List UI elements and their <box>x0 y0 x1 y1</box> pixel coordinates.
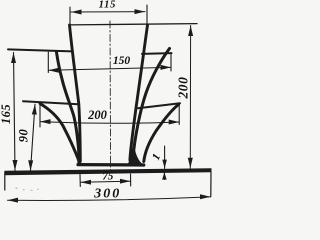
neck right wall <box>130 25 148 160</box>
dim 200 right line <box>189 26 191 169</box>
wire: stage1 right lip <box>138 103 180 108</box>
neck left wall <box>70 25 81 161</box>
dim 115 ext left <box>69 7 71 25</box>
dim 300 right arrow <box>200 194 211 199</box>
neck top edge + extension to right 200 dim <box>70 24 198 25</box>
stage1 right bell curve <box>144 105 179 162</box>
centerline <box>109 21 112 170</box>
dim 90 line <box>31 104 36 170</box>
dim 150 ext right <box>170 54 172 72</box>
vessel bottom right corner fill <box>128 149 143 165</box>
stage2 left bell curve <box>57 52 80 161</box>
base plate (blank) <box>5 168 212 175</box>
svg-text:165: 165 <box>0 104 13 124</box>
svg-text:75: 75 <box>102 171 114 183</box>
stage2 right bell curve <box>133 49 170 159</box>
dim 300 line <box>8 197 211 201</box>
dim 90 down arrow <box>28 160 33 170</box>
faint scan speckles on plate <box>16 188 39 192</box>
dim 115 line <box>71 11 145 13</box>
svg-text:1: 1 <box>150 152 163 162</box>
plate right edge ext <box>210 172 212 197</box>
wire: stage2 left lip (top flange, also ext line for 165) <box>8 49 72 51</box>
plate left edge ext <box>4 172 6 190</box>
svg-text:115: 115 <box>99 0 117 10</box>
dim 200 mid line <box>40 122 179 124</box>
dim 1 down arrow <box>162 160 167 169</box>
dim 1 leader upper segment <box>164 146 166 168</box>
svg-text:200: 200 <box>87 108 108 122</box>
dim 90 up arrow <box>32 104 37 114</box>
dim 165 line <box>14 53 16 171</box>
dim 150 line <box>48 67 171 70</box>
dim 200 mid right arrow <box>169 120 180 125</box>
wire: stage2 right lip <box>142 52 172 55</box>
dim 165 up arrow <box>11 53 16 64</box>
stage1 left bell curve <box>40 104 79 162</box>
vessel flat bottom <box>78 163 144 167</box>
dim 200 right down arrow <box>188 158 193 169</box>
dim 1 up arrow <box>162 172 167 179</box>
dim 75 line <box>81 181 131 182</box>
dim 75 ext right <box>130 174 132 186</box>
dim 150 ext left <box>47 52 49 73</box>
dim 75 ext left <box>79 175 81 187</box>
vessel bottom left corner fill <box>77 153 83 164</box>
dim 165 down arrow <box>13 160 18 171</box>
dim 200 mid ext right <box>178 104 180 125</box>
wire: stage1 left lip <box>23 101 79 104</box>
dim 300 left arrow <box>8 198 19 203</box>
dim 115 left arrow <box>71 10 82 15</box>
dim 115 ext right <box>146 5 148 27</box>
svg-text:90: 90 <box>17 129 31 143</box>
dim 75 left arrow <box>81 180 92 185</box>
svg-text:200: 200 <box>176 76 191 99</box>
dim 115 right arrow <box>135 9 146 14</box>
dim 200 right up arrow <box>188 26 193 37</box>
dim 75 right arrow <box>120 179 131 184</box>
svg-text:150: 150 <box>113 55 131 67</box>
dim 150 right arrow <box>161 65 172 70</box>
svg-text:300: 300 <box>93 186 121 201</box>
dim 200 mid ext left <box>39 102 41 127</box>
dim 200 mid left arrow <box>40 119 51 124</box>
dim 1 lower segment <box>163 172 165 179</box>
dim 150 left arrow <box>48 68 59 73</box>
